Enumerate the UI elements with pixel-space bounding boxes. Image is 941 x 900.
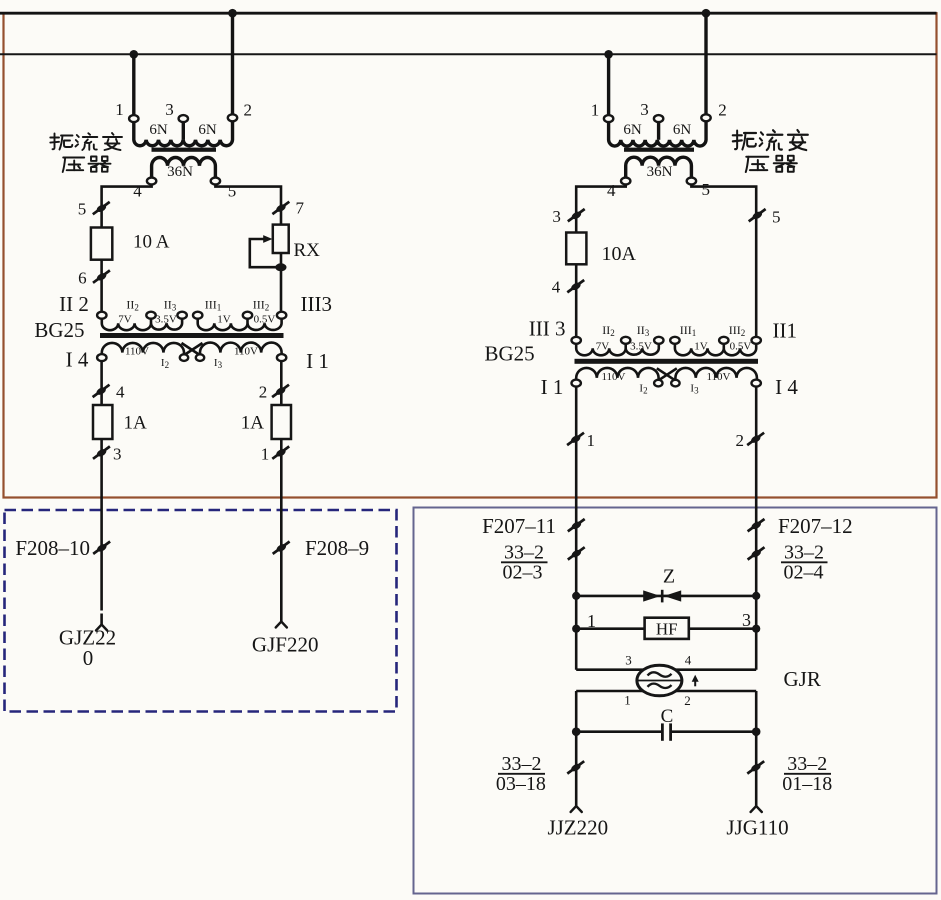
svg-text:0.5V: 0.5V: [254, 314, 276, 326]
transformer BG25-R top end terminal circle: [752, 337, 761, 344]
svg-text:JJZ220: JJZ220: [547, 816, 608, 840]
svg-text:I 4: I 4: [66, 348, 89, 372]
svg-text:10 A: 10 A: [133, 232, 170, 253]
svg-text:110V: 110V: [601, 371, 625, 383]
svg-text:II1: II1: [773, 319, 798, 343]
svg-text:03–18: 03–18: [496, 773, 546, 795]
svg-text:7V: 7V: [118, 314, 132, 326]
svg-text:01–18: 01–18: [782, 773, 832, 795]
wire: [575, 264, 578, 337]
svg-text:0: 0: [83, 646, 94, 670]
bus bar 1 (top, overlaps frame top): [0, 12, 937, 15]
node: bus1 junction dot right unit: [702, 9, 711, 18]
outer brown frame box: [4, 13, 937, 497]
svg-text:5: 5: [702, 180, 711, 199]
choke transformer T2 secondary winding 36N: [626, 157, 692, 177]
terminal slash 33-2/01-18: [747, 761, 764, 773]
wire: drop to T2 terminal 1: [607, 54, 610, 115]
svg-text:3: 3: [113, 445, 122, 464]
wire: [280, 439, 283, 622]
transformer BG25-L top end terminal circle (II2): [97, 312, 106, 319]
svg-text:1A: 1A: [241, 413, 265, 434]
hanzi label line2: [746, 157, 769, 172]
svg-text:33–2: 33–2: [502, 753, 542, 775]
connector chevron GJZ220: [96, 625, 107, 631]
svg-text:GJF220: GJF220: [252, 633, 319, 657]
svg-text:02–4: 02–4: [784, 562, 824, 584]
transformer BG25-R crossover circles: [654, 380, 662, 387]
svg-text:33–2: 33–2: [787, 753, 827, 775]
node: HF branch left dot: [572, 625, 580, 633]
transformer BG25-L winding III (1V,0.5V segments): [198, 318, 282, 330]
svg-text:110V: 110V: [706, 371, 730, 383]
svg-text:4: 4: [607, 181, 616, 200]
node: bus1 junction dot left unit: [228, 9, 237, 18]
svg-text:C: C: [661, 706, 674, 727]
terminal slash 7: [272, 202, 289, 214]
wire: drop to T2 terminal 2: [704, 13, 707, 114]
svg-text:1: 1: [591, 101, 600, 120]
choke transformer T1 pin 5 terminal circle: [211, 178, 220, 185]
svg-text:F207–11: F207–11: [482, 514, 556, 538]
terminal slash 1: [567, 433, 584, 445]
svg-text:2: 2: [736, 431, 745, 450]
choke transformer T2 pin 2 terminal circle: [701, 114, 710, 121]
svg-text:I 4: I 4: [775, 375, 798, 399]
svg-text:GJR: GJR: [784, 667, 821, 691]
svg-text:1A: 1A: [124, 413, 148, 434]
wire to connector (with small break): [100, 614, 103, 625]
choke transformer T1 core bar: [152, 148, 217, 152]
choke transformer T2 primary winding: [609, 121, 706, 146]
relay GJR lower tilde: [648, 684, 672, 688]
svg-text:6N: 6N: [149, 122, 168, 138]
transformer BG25-L crossover X: [182, 343, 203, 355]
svg-text:3: 3: [742, 610, 751, 630]
wire left column below BG25-L: [100, 361, 103, 405]
svg-text:02–3: 02–3: [503, 562, 543, 584]
filter HF body: [645, 618, 689, 639]
svg-text:BG25: BG25: [34, 318, 84, 342]
wire: pin5 to right column: [691, 185, 756, 338]
svg-text:2: 2: [684, 693, 691, 708]
svg-text:6N: 6N: [623, 122, 642, 138]
svg-text:HF: HF: [656, 620, 678, 639]
wire right column below BG25-R: [755, 387, 758, 670]
svg-text:3: 3: [165, 100, 174, 119]
node: Z branch right dot: [752, 592, 760, 600]
terminal slash 4: [93, 385, 110, 397]
choke transformer T1 pin 4 terminal circle: [147, 178, 156, 185]
terminal slash 33-2/02-4: [748, 547, 765, 559]
hanzi label choke-transformer (right unit) line1: [733, 131, 756, 150]
node: Z branch left dot: [572, 592, 580, 600]
transformer BG25-R winding II: [576, 344, 659, 356]
svg-text:1: 1: [587, 611, 596, 631]
svg-text:4: 4: [116, 383, 125, 402]
svg-text:2: 2: [259, 383, 268, 402]
hanzi label line2: [63, 158, 84, 173]
terminal slash 4: [567, 280, 584, 292]
svg-text:36N: 36N: [167, 164, 193, 180]
choke transformer T2 pin 3 stub: [657, 122, 660, 140]
svg-text:3: 3: [640, 100, 649, 119]
svg-text:4: 4: [552, 278, 561, 297]
transformer BG25-L crossover circles: [180, 354, 188, 361]
svg-text:1V: 1V: [694, 341, 708, 353]
terminal slash 33-2/03-18: [567, 761, 584, 773]
transformer BG25-R secondary winding (right 110V): [675, 368, 757, 380]
node: capacitor branch right dot: [752, 727, 761, 736]
terminal slash F208-9: [273, 542, 290, 554]
svg-text:2: 2: [718, 101, 727, 120]
svg-text:110V: 110V: [125, 346, 149, 358]
terminal slash 1: [272, 446, 289, 458]
rheostat RX wiper arrow: [263, 235, 272, 243]
svg-text:1: 1: [624, 693, 631, 708]
choke transformer T1 primary winding: [134, 121, 233, 145]
choke transformer T1 pin 3 terminal circle: [179, 115, 188, 122]
fuse 1A left body: [93, 405, 112, 439]
wire left column below BG25-R: [575, 387, 578, 670]
connector chevron JJG110: [751, 806, 762, 812]
wire: GJR top line: [576, 668, 756, 671]
choke transformer T2 pin 4 terminal circle: [621, 178, 630, 185]
svg-text:33–2: 33–2: [784, 542, 824, 564]
fuse 10A body: [91, 228, 112, 260]
svg-text:6N: 6N: [673, 122, 692, 138]
node: bus2 junction dot right unit: [604, 50, 613, 59]
transformer BG25-L top end terminal circle (III3): [277, 312, 286, 319]
svg-text:F208–10: F208–10: [15, 536, 90, 560]
choke transformer T1 pin 1 terminal circle: [129, 115, 138, 122]
terminal slash F207-11: [568, 519, 585, 531]
wire: pin5 to right column: [215, 185, 281, 225]
terminal slash 2: [272, 385, 289, 397]
choke transformer T1 secondary winding 36N: [152, 158, 216, 178]
node: RX bottom junction dot: [275, 263, 286, 271]
terminal slash 3: [93, 446, 110, 458]
terminal slash F208-10: [93, 542, 110, 554]
choke transformer T1 pin 2 terminal circle: [228, 114, 237, 121]
wire: Z branch: [576, 595, 756, 598]
transformer BG25-R bottom end terminal circle (I1): [572, 380, 581, 387]
choke transformer T2 pin 1 terminal circle: [604, 115, 613, 122]
terminal slash 33-2/02-3: [568, 547, 585, 559]
wire: pin4 to left column: [576, 185, 626, 233]
wire: capacitor branch: [576, 730, 661, 733]
capacitor C plates: [661, 723, 664, 740]
transformer BG25-L bottom end terminal circle (I1): [277, 354, 286, 361]
terminal slash 2: [747, 433, 764, 445]
transformer BG25-L core bar: [100, 333, 284, 338]
svg-text:110V: 110V: [234, 346, 258, 358]
svg-text:36N: 36N: [647, 164, 673, 180]
transformer BG25-L secondary winding I (left 110V): [102, 343, 184, 354]
connector chevron GJF220: [276, 622, 287, 628]
transformer BG25-R top end terminal circle: [572, 337, 581, 344]
wire: pin4 to left column: [102, 185, 152, 228]
choke transformer T2 pin 5 terminal circle: [687, 178, 696, 185]
transformer BG25-R bottom end terminal circle (I4): [752, 380, 761, 387]
terminal slash F207-12: [748, 519, 765, 531]
wire: [100, 260, 103, 312]
svg-text:0.5V: 0.5V: [730, 341, 752, 353]
svg-text:III 3: III 3: [529, 317, 566, 341]
svg-text:3: 3: [552, 207, 561, 226]
wire right column below BG25-L: [280, 361, 283, 405]
transformer BG25-L secondary winding I (right 110V): [200, 343, 282, 355]
svg-text:1: 1: [115, 100, 124, 119]
svg-text:1: 1: [261, 445, 270, 464]
transformer BG25-R top tap circles: [621, 337, 630, 344]
svg-text:III3: III3: [301, 292, 332, 316]
svg-text:10A: 10A: [602, 243, 637, 265]
choke transformer T2 core bar: [624, 148, 694, 152]
wire: HF branch: [576, 627, 756, 630]
transformer BG25-R core bar: [575, 359, 759, 364]
svg-text:II 2: II 2: [59, 292, 89, 316]
svg-text:BG25: BG25: [485, 342, 535, 366]
choke transformer T2 pin 3 terminal circle: [654, 115, 663, 122]
terminal slash 5 (right branch): [749, 209, 766, 221]
svg-text:RX: RX: [294, 240, 321, 261]
fuse 1A right body: [272, 405, 291, 439]
relay GJR upper tilde: [648, 672, 672, 676]
connector chevron JJZ220: [571, 806, 582, 812]
svg-text:I 1: I 1: [306, 349, 329, 373]
svg-text:JJG110: JJG110: [726, 816, 788, 840]
relay GJR middle line: [637, 680, 681, 682]
svg-text:7V: 7V: [596, 341, 610, 353]
svg-text:I 1: I 1: [541, 375, 564, 399]
GJR set-point arrow: [694, 679, 696, 686]
svg-text:4: 4: [685, 653, 692, 668]
svg-text:6N: 6N: [198, 122, 217, 138]
transformer BG25-L winding II (7V,3.5V segments): [102, 318, 182, 330]
rheostat RX body: [273, 225, 289, 253]
transformer BG25-L top tap circles: [146, 312, 155, 319]
diode pair Z symbol: [643, 590, 660, 601]
svg-text:F208–9: F208–9: [305, 536, 369, 560]
solid slate box (bottom right): [414, 508, 937, 894]
terminal slash 6: [93, 270, 110, 282]
svg-text:3.5V: 3.5V: [155, 314, 177, 326]
transformer BG25-R winding III: [675, 344, 756, 356]
svg-text:2: 2: [243, 101, 252, 120]
terminal slash 5: [93, 202, 110, 214]
svg-text:5: 5: [228, 182, 237, 201]
wire: GJR bottom line: [576, 690, 756, 693]
svg-text:3.5V: 3.5V: [630, 341, 652, 353]
svg-text:F207–12: F207–12: [778, 514, 853, 538]
hanzi label choke-transformer (left unit) line1: [50, 134, 72, 150]
wire: drop to T1 terminal 1: [132, 54, 135, 115]
bus bar 2: [0, 53, 937, 55]
svg-text:3: 3: [625, 653, 632, 668]
dashed navy box (bottom left): [5, 510, 397, 712]
node: bus2 junction dot left unit: [130, 50, 139, 59]
wire below RX: [280, 253, 283, 312]
svg-text:4: 4: [133, 182, 142, 201]
svg-text:7: 7: [296, 199, 305, 218]
svg-text:1: 1: [587, 431, 596, 450]
node: capacitor branch left dot: [572, 727, 581, 736]
svg-text:33–2: 33–2: [504, 542, 544, 564]
svg-text:1V: 1V: [217, 314, 231, 326]
rheostat RX wiper loop wire: [250, 239, 277, 267]
transformer BG25-R secondary winding (left 110V): [576, 368, 658, 380]
transformer BG25-R crossover X: [657, 368, 677, 380]
wire: [100, 439, 103, 611]
wire: drop to T1 terminal 2: [231, 13, 234, 114]
svg-text:5: 5: [78, 200, 87, 219]
wire right column to capacitor branch: [755, 691, 758, 806]
choke transformer T1 pin 3 stub: [182, 122, 185, 140]
wire left column to capacitor branch: [575, 691, 578, 806]
fuse 10A body: [566, 233, 586, 265]
svg-text:6: 6: [78, 269, 87, 288]
transformer BG25-L bottom end terminal circle (I4): [97, 354, 106, 361]
terminal slash 3: [568, 209, 585, 221]
svg-text:Z: Z: [663, 566, 675, 588]
relay GJR ellipse: [637, 665, 682, 696]
node: HF branch right dot: [752, 625, 760, 633]
svg-text:5: 5: [772, 208, 781, 227]
